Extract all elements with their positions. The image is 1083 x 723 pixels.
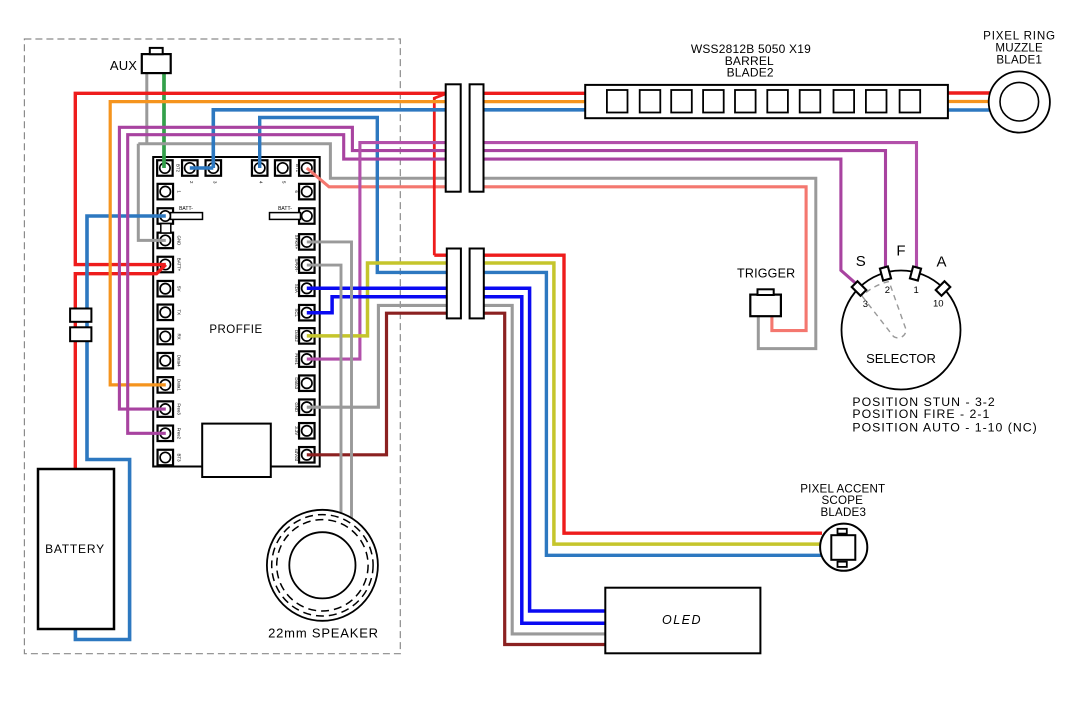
left pads column [158, 184, 174, 200]
svg-text:Free1: Free1 [294, 353, 299, 365]
pin labels right [294, 190, 299, 461]
selector terminal 1 [910, 266, 921, 280]
wire steelblue pad4 to accent scope [260, 118, 822, 556]
svg-text:BATT-: BATT- [278, 206, 292, 212]
svg-text:SCL: SCL [294, 308, 299, 317]
svg-text:BT1: BT1 [295, 164, 300, 173]
wire red battery+ to BATT+ pad [75, 265, 166, 469]
svg-text:22mm SPEAKER: 22mm SPEAKER [268, 626, 379, 641]
speaker outer ring [267, 510, 378, 621]
svg-text:GND: GND [177, 236, 182, 246]
wire orange Data1 to barrel [110, 102, 585, 385]
svg-text:BT3: BT3 [177, 453, 182, 462]
wire gray AUX drop [145, 72, 148, 144]
wire gray ground net to trigger [138, 144, 816, 349]
SD card slot [202, 424, 271, 477]
pixel ring inner [1000, 82, 1039, 121]
svg-text:BLADE2: BLADE2 [727, 66, 774, 80]
svg-text:Free3: Free3 [177, 403, 182, 415]
svg-text:BATTERY: BATTERY [45, 542, 105, 556]
selector terminal 2 [880, 266, 891, 280]
top pad BT1 [299, 160, 315, 176]
selector terminal 10 [936, 281, 951, 296]
accent scope LED body [831, 535, 855, 560]
accent scope LED tab top [838, 529, 847, 534]
wire purple Free2 to selector terminal 3 [128, 135, 857, 434]
proffie board outline [153, 157, 320, 467]
svg-text:GND: GND [294, 402, 299, 412]
wire purple Free3 to selector terminal 2 [119, 127, 885, 409]
OLED body [605, 588, 760, 654]
wire red junction diagonal drop [434, 93, 447, 255]
wire gray SPKR+ to speaker [307, 242, 352, 519]
svg-text:PROFFIE: PROFFIE [209, 324, 262, 336]
svg-text:POSITION AUTO - 1-10 (NC): POSITION AUTO - 1-10 (NC) [852, 420, 1037, 434]
wire gray ground net to GND pad [138, 144, 166, 241]
wire steelblue pad3 to barrel [213, 110, 585, 168]
AUX switch body [142, 54, 171, 73]
wire blue SCL to OLED [307, 297, 606, 624]
svg-text:Data2: Data2 [294, 330, 299, 342]
wire salmon BT1 to trigger [307, 168, 806, 331]
svg-text:BATT+: BATT+ [177, 258, 182, 272]
svg-text:3: 3 [863, 299, 868, 310]
battery inline connector bottom [70, 327, 91, 341]
trigger body [750, 295, 781, 317]
speaker dashed ring 1 [272, 515, 373, 616]
right pads column [299, 184, 315, 200]
wire gray SPKR- to speaker [307, 265, 341, 514]
selector terminal 3 [852, 281, 867, 296]
battery inline connector top [70, 309, 91, 322]
barrel LED pixels [607, 90, 920, 113]
svg-text:3.3V: 3.3V [294, 426, 299, 435]
accent scope LED tab bottom [838, 562, 847, 567]
wire red barrel to ring [948, 91, 992, 94]
wire steelblue barrel to ring [948, 108, 992, 111]
accent scope circle [820, 524, 867, 571]
top pad 5 [275, 160, 291, 176]
svg-text:SELECTOR: SELECTOR [866, 351, 936, 366]
svg-text:SPKR+: SPKR+ [294, 235, 299, 250]
top pad 3 [206, 160, 222, 176]
BATT- to GND neck [161, 224, 171, 233]
svg-text:BLADE3: BLADE3 [820, 506, 866, 519]
wire steelblue battery- to BATT- pad [75, 216, 165, 640]
svg-text:5V: 5V [177, 286, 182, 291]
svg-text:RX: RX [177, 333, 182, 339]
svg-text:BATT-: BATT- [179, 206, 193, 212]
wire red feed to accent scope [434, 255, 822, 533]
svg-text:BT2: BT2 [176, 164, 181, 173]
pixel ring outer [989, 71, 1050, 132]
svg-text:POSITION FIRE - 2-1: POSITION FIRE - 2-1 [852, 407, 990, 421]
svg-text:2: 2 [885, 285, 890, 296]
top pad 2 [182, 160, 198, 176]
svg-text:Free2: Free2 [177, 428, 182, 440]
svg-text:S: S [856, 253, 866, 270]
top pad 4 [252, 160, 268, 176]
AUX switch button tab [150, 48, 163, 54]
wire blue SDA to OLED [307, 288, 606, 611]
svg-text:Data4: Data4 [177, 355, 182, 367]
svg-text:10: 10 [933, 299, 944, 310]
BATT- tab left [171, 213, 203, 220]
pin labels left [177, 190, 182, 462]
wire yellow Data2 to accent scope [307, 263, 822, 544]
svg-text:SPKR-: SPKR- [294, 258, 299, 272]
wire red BATT+ to top feed [75, 93, 585, 264]
selector body circle [842, 271, 961, 390]
trigger button tab [758, 289, 774, 295]
battery body [38, 469, 114, 629]
svg-text:AUX: AUX [110, 58, 137, 73]
wire green AUX to BT2 [162, 72, 166, 168]
blade connector 2 half A [447, 249, 461, 319]
pin labels top row [176, 164, 301, 184]
speaker dashed ring 2 [277, 520, 368, 611]
barrel LED strip body [585, 85, 948, 118]
blade connector 1 half A [446, 84, 461, 191]
BATT- tab right [270, 213, 301, 220]
svg-text:F: F [896, 243, 905, 260]
top pad BT2 [157, 160, 173, 176]
svg-text:1: 1 [914, 285, 919, 296]
svg-text:sdVdd: sdVdd [294, 449, 299, 462]
svg-text:A: A [936, 254, 946, 271]
svg-text:BLADE1: BLADE1 [996, 54, 1042, 67]
wire orchid Free1 to selector terminal 1 [307, 143, 917, 360]
speaker cone [289, 532, 355, 598]
svg-text:OLED: OLED [662, 613, 702, 627]
wire gray GND to OLED [307, 305, 606, 634]
svg-text:SDA: SDA [294, 284, 299, 293]
blade connector 2 half B [470, 249, 484, 319]
wire steelblue jumper pad2 pad3 [190, 166, 214, 170]
hilt dashed enclosure [24, 39, 400, 654]
svg-text:Data3: Data3 [294, 377, 299, 389]
blade connector 1 half B [470, 84, 484, 191]
svg-text:TX: TX [177, 309, 182, 315]
blade connector 1 gap cover [458, 84, 472, 191]
svg-text:TRIGGER: TRIGGER [737, 267, 795, 281]
blade connector 2 gap cover [458, 249, 472, 319]
selector dashed pointer [862, 282, 906, 338]
svg-text:Data1: Data1 [177, 379, 182, 391]
wire darkred sdVdd to OLED [307, 313, 606, 644]
wire orange barrel to ring [948, 100, 992, 103]
